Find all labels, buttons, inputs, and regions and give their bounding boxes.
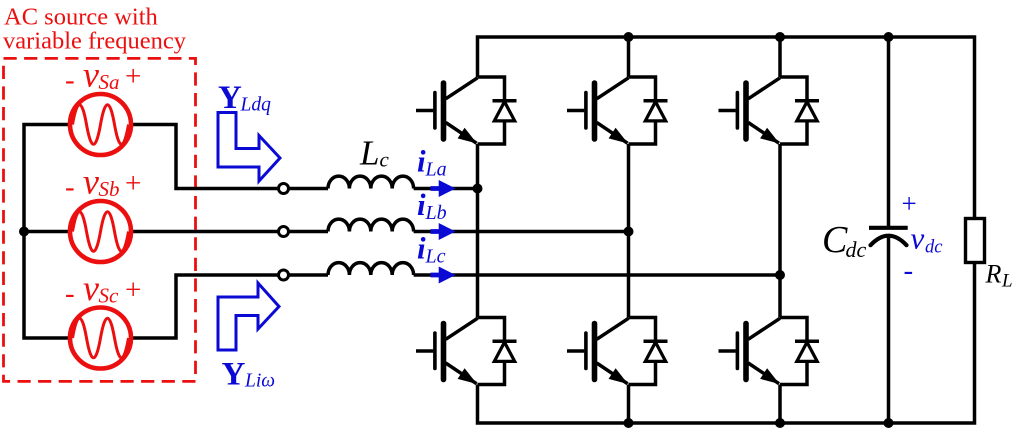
svg-text:C: C bbox=[822, 219, 848, 261]
wire: capacitor branch bbox=[887, 37, 891, 423]
svg-text:-: - bbox=[65, 64, 75, 96]
label iLa bbox=[417, 144, 447, 181]
wire: leg c verticals bbox=[778, 37, 782, 423]
capacitor Cdc curved plate bbox=[871, 236, 907, 246]
AC source Vsb bbox=[70, 201, 131, 262]
svg-text:+: + bbox=[125, 274, 141, 306]
IGBT switch S3 upper leg b bbox=[567, 77, 668, 144]
input terminal phase c bbox=[279, 270, 289, 280]
svg-text:Y: Y bbox=[218, 80, 242, 116]
svg-text:c: c bbox=[380, 148, 390, 172]
IGBT switch S2 lower leg c bbox=[719, 318, 820, 385]
svg-text:Lb: Lb bbox=[425, 202, 447, 224]
inductor La bbox=[328, 176, 414, 188]
resistor RL body bbox=[966, 219, 985, 263]
wire phase a to inductor bbox=[289, 187, 329, 191]
label - vSa + bbox=[65, 55, 141, 97]
label Lc inductance bbox=[359, 134, 390, 173]
label Y_Ldq bbox=[218, 80, 271, 116]
svg-text:-: - bbox=[65, 278, 75, 310]
svg-text:v: v bbox=[911, 221, 925, 256]
wire inductor Lc to bridge leg c bbox=[414, 273, 780, 277]
svg-text:Ldq: Ldq bbox=[240, 95, 272, 116]
label vdc bbox=[911, 221, 944, 258]
wire phase c to inductor bbox=[289, 273, 329, 277]
svg-text:v: v bbox=[83, 162, 99, 202]
dashed boundary box of AC source block bbox=[4, 58, 196, 381]
svg-text:Lc: Lc bbox=[425, 246, 446, 268]
svg-text:La: La bbox=[425, 159, 447, 181]
current arrow iLc bbox=[431, 267, 456, 284]
junction on left bus bbox=[19, 227, 29, 237]
input terminal phase a bbox=[279, 184, 289, 194]
junction top rail leg c bbox=[775, 32, 785, 42]
IGBT switch S5 upper leg c bbox=[719, 77, 820, 144]
title text: AC source with variable frequency bbox=[3, 4, 187, 55]
junction top rail capacitor bbox=[884, 32, 894, 42]
input terminal phase b bbox=[279, 227, 289, 237]
svg-text:+: + bbox=[125, 167, 141, 199]
junction phase b leg bbox=[624, 227, 634, 237]
svg-text:dc: dc bbox=[925, 238, 943, 258]
IGBT switch S4 lower leg a bbox=[416, 318, 517, 385]
svg-text:Y: Y bbox=[222, 357, 246, 393]
svg-text:Sb: Sb bbox=[99, 177, 120, 201]
label - vSb + bbox=[65, 162, 141, 204]
wire: source b right lead bbox=[131, 230, 279, 234]
IGBT switch S6 lower leg b bbox=[567, 318, 668, 385]
label iLc bbox=[417, 231, 446, 268]
label - vSc + bbox=[65, 268, 141, 310]
junction phase a leg bbox=[473, 184, 483, 194]
wire: top DC rail and right branch down to load bbox=[478, 37, 975, 220]
svg-text:dc: dc bbox=[846, 237, 867, 262]
wire: source a right lead jog down to phase a bbox=[131, 125, 279, 189]
svg-text:-: - bbox=[904, 255, 914, 287]
svg-text:Liω: Liω bbox=[244, 371, 275, 392]
wire: leg b verticals bbox=[627, 37, 631, 423]
label Y_Liw bbox=[222, 357, 276, 393]
svg-text:L: L bbox=[359, 134, 379, 173]
current arrow iLa bbox=[431, 180, 456, 197]
capacitor Cdc top plate bbox=[869, 226, 908, 230]
svg-text:Sc: Sc bbox=[99, 284, 120, 308]
svg-text:R: R bbox=[985, 260, 1002, 289]
block arrow Y_Liw bbox=[218, 283, 279, 350]
wire: leg a middle section bbox=[476, 144, 480, 318]
inductor Lc bbox=[328, 263, 414, 275]
svg-text:v: v bbox=[83, 268, 99, 308]
svg-text:-: - bbox=[65, 171, 75, 203]
wire: bottom DC rail and right branch up to load bbox=[478, 262, 975, 424]
IGBT switch S1 upper leg a bbox=[416, 77, 517, 144]
svg-text:+: + bbox=[125, 60, 141, 92]
wire inductor Lb to bridge leg b bbox=[414, 230, 629, 234]
svg-text:AC source with: AC source with bbox=[4, 4, 158, 31]
svg-text:Sa: Sa bbox=[99, 70, 120, 94]
current arrow iLb bbox=[431, 223, 456, 240]
junction bottom rail leg c bbox=[775, 418, 785, 428]
AC source Vsc bbox=[70, 308, 131, 369]
svg-text:L: L bbox=[1001, 271, 1013, 292]
svg-text:variable frequency: variable frequency bbox=[3, 28, 187, 55]
block arrow Y_Ldq bbox=[218, 113, 280, 182]
inductor Lb bbox=[328, 219, 414, 231]
wire: source b left lead bbox=[24, 230, 70, 234]
wire: left bus with source a and c left leads bbox=[24, 125, 70, 339]
junction bottom rail capacitor bbox=[884, 418, 894, 428]
label RL bbox=[985, 260, 1013, 292]
wire phase b to inductor bbox=[289, 230, 329, 234]
junction phase c leg bbox=[775, 270, 785, 280]
svg-text:+: + bbox=[902, 189, 917, 219]
wire inductor La to bridge leg a bbox=[414, 187, 478, 191]
AC source Vsa bbox=[70, 94, 131, 155]
wire: source c right lead jog up to phase c bbox=[131, 275, 279, 338]
junction top rail leg b bbox=[624, 32, 634, 42]
label Cdc bbox=[822, 219, 867, 262]
junction bottom rail leg b bbox=[624, 418, 634, 428]
label iLb bbox=[417, 187, 447, 224]
svg-text:v: v bbox=[83, 55, 99, 95]
